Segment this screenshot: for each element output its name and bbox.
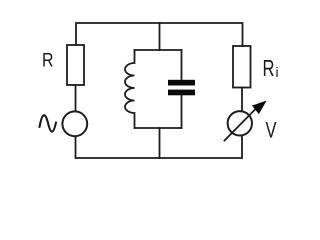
sine symbol of source xyxy=(40,115,57,131)
wire middle bottom feed xyxy=(159,128,161,158)
voltmeter arrow shaft xyxy=(225,108,257,141)
resistor R xyxy=(67,45,84,85)
voltmeter arrow head xyxy=(253,102,266,114)
wire middle top feed xyxy=(159,23,161,50)
capacitor C top plate xyxy=(168,80,195,86)
svg-text:V: V xyxy=(266,118,277,143)
svg-text:R: R xyxy=(42,51,54,72)
wire top rail (R top - across - Ri top) xyxy=(76,23,243,46)
inductor L (left side of tank, 4 loops) xyxy=(125,50,135,128)
capacitor C branch wires (right side of tank) xyxy=(181,50,183,128)
svg-text:i: i xyxy=(276,64,279,80)
tank circuit box bottom wire xyxy=(135,127,182,129)
AC source circle xyxy=(62,111,87,136)
capacitor C bottom plate xyxy=(168,90,195,96)
svg-text:R: R xyxy=(263,55,275,81)
wire R bottom to source xyxy=(75,85,77,112)
resistor Ri xyxy=(233,46,251,88)
wire bottom rail (source bottom - across - voltmeter bottom) xyxy=(76,136,243,159)
tank circuit box top wire xyxy=(135,49,182,51)
voltmeter circle xyxy=(228,111,252,135)
wire Ri bottom to voltmeter xyxy=(241,88,243,112)
